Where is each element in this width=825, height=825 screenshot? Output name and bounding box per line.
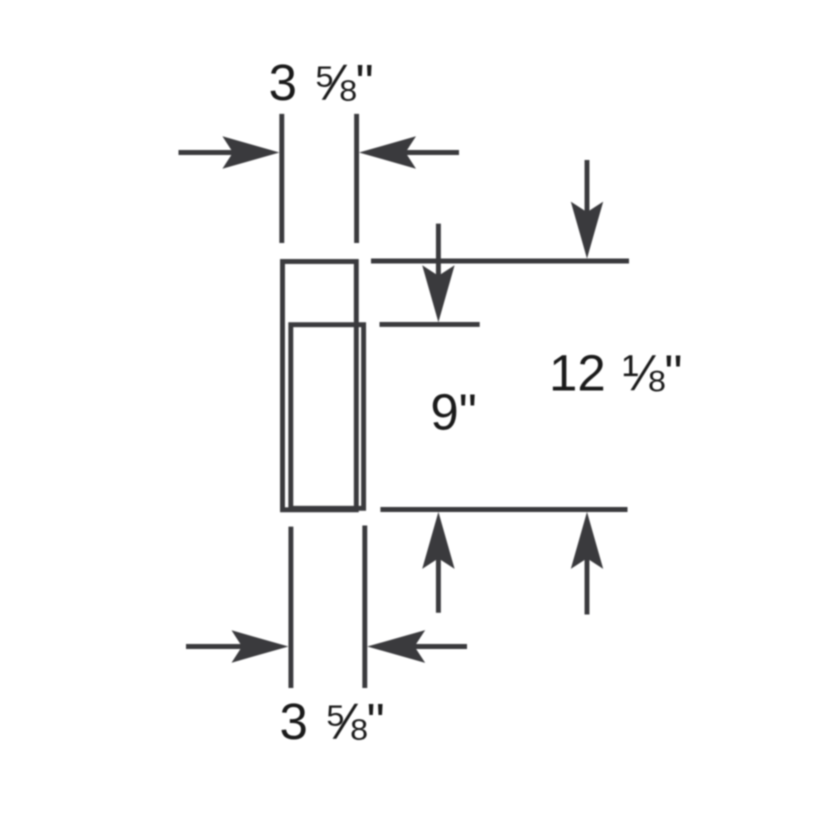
svg-text:3 ⅝": 3 ⅝" xyxy=(280,693,385,750)
svg-text:12 ⅛": 12 ⅛" xyxy=(549,345,683,402)
svg-text:9": 9" xyxy=(430,383,476,440)
svg-text:3 ⅝": 3 ⅝" xyxy=(269,54,374,111)
